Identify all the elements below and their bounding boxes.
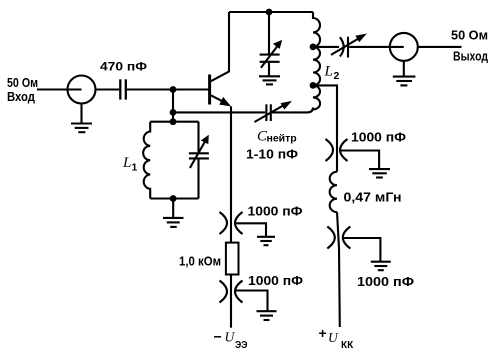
capacitor C6 1000pF (supply upper) (326, 139, 348, 161)
tank bottom side (150, 197, 198, 199)
node L2 supply tap (310, 82, 317, 89)
capacitor C3 output trimmer (331, 34, 367, 58)
node base junction (170, 86, 177, 93)
transistor Q1 base bar (208, 75, 211, 105)
wire emitter down (230, 106, 232, 243)
svg-text:0,47 мГн: 0,47 мГн (344, 191, 402, 205)
wire chain through C7 (337, 212, 340, 327)
wire cap to ground (268, 63, 270, 76)
svg-text:1000 пФ: 1000 пФ (351, 131, 406, 145)
tank circuit L1C1 top side (150, 121, 198, 123)
connector XS2 output (390, 33, 418, 61)
wire base column down (172, 90, 174, 122)
wire Cneutral line (173, 111, 265, 113)
wire resistor down (230, 275, 232, 328)
label L1 (122, 155, 138, 174)
svg-text:ЭЭ: ЭЭ (235, 340, 248, 351)
wire C470 to base node (127, 88, 209, 90)
wire input to connector center (37, 88, 82, 90)
wire top rail (229, 11, 313, 13)
node L2 output tap (310, 44, 317, 51)
arrow (C neutral variable) (255, 101, 293, 122)
wire connector to edge (418, 46, 462, 48)
svg-text:1000 пФ: 1000 пФ (248, 274, 303, 288)
svg-text:L: L (122, 155, 131, 171)
ground (output connector) (393, 61, 416, 86)
svg-text:КК: КК (341, 340, 354, 351)
capacitor C2 variable (collector tuning) (260, 40, 283, 68)
capacitor C neutral plates (266, 104, 270, 121)
node IN label (7, 75, 38, 104)
label L2 (324, 64, 340, 83)
resistor R1 1.0 kOhm (226, 243, 239, 275)
capacitor C4 1000pF (emitter upper) (220, 212, 243, 234)
node Cneutral junction (170, 109, 177, 116)
svg-text:2: 2 (334, 70, 340, 82)
wire C5 to ground (236, 291, 268, 311)
ground (C4) (257, 237, 275, 245)
inductor L2 (313, 12, 320, 110)
ground (C7) (371, 262, 391, 271)
tank right side upper (197, 122, 199, 153)
node tank-top junction (170, 118, 177, 125)
ground (C6) (369, 169, 390, 177)
inductor L3 0.47 mH (330, 172, 337, 212)
svg-text:50 Ом: 50 Ом (451, 28, 488, 43)
wire C7 to ground (343, 238, 380, 261)
label R1 (179, 255, 221, 269)
capacitor C1 variable (tank) (189, 135, 209, 168)
wire Cneutral to L2 bottom (272, 108, 313, 113)
ground (C5) (257, 311, 277, 320)
node tank ground junction (170, 195, 177, 202)
wire tap1 to trimmer (313, 46, 339, 48)
wire C6 to ground (341, 151, 379, 169)
svg-text:Вход: Вход (7, 89, 36, 104)
wire chain through C6 (336, 139, 338, 172)
wire C4 to ground (236, 223, 267, 236)
node -Uee label (214, 329, 248, 352)
node +Ukk label (319, 325, 355, 351)
svg-text:1-10 пФ: 1-10 пФ (246, 148, 298, 162)
ground (tank) (163, 199, 184, 227)
node OUT label (451, 28, 489, 64)
label C5 (248, 274, 303, 288)
svg-text:470 пФ: 470 пФ (100, 60, 147, 74)
ground (input connector) (71, 104, 92, 133)
label C7 (357, 275, 414, 289)
connector XS1 input (68, 76, 96, 104)
svg-text:50 Ом: 50 Ом (7, 75, 38, 90)
wire L2 tap2 to decoupling chain (313, 85, 337, 139)
label C neutral (246, 128, 298, 161)
wire trimmer to output connector (349, 46, 404, 48)
svg-text:Выход: Выход (453, 49, 489, 64)
svg-text:L: L (324, 64, 333, 80)
svg-text:1000 пФ: 1000 пФ (248, 205, 303, 219)
label C6 (351, 131, 406, 145)
capacitor 470 pF (100, 60, 147, 100)
tank right side lower (197, 159, 199, 198)
capacitor C7 1000pF (supply lower) (327, 227, 350, 249)
node rail junction (266, 9, 273, 16)
svg-text:U: U (328, 330, 339, 345)
svg-text:1000 пФ: 1000 пФ (357, 275, 414, 289)
label C4 (248, 205, 303, 219)
inductor L1 (143, 122, 150, 199)
svg-text:+: + (319, 325, 327, 341)
capacitor C5 1000pF (emitter lower) (220, 281, 243, 303)
transistor Q1 emitter (211, 95, 231, 106)
transistor Q1 collector (211, 12, 229, 81)
svg-text:1,0 кОм: 1,0 кОм (179, 255, 221, 269)
svg-text:нейтр: нейтр (267, 133, 297, 145)
svg-text:U: U (225, 330, 236, 345)
wire connector to C 470pF (96, 88, 120, 90)
ground (collector tuning cap) (259, 76, 280, 84)
wire rail to variable cap (268, 12, 270, 54)
label L3 (344, 191, 402, 205)
svg-text:−: − (214, 329, 222, 345)
svg-text:1: 1 (132, 162, 138, 174)
